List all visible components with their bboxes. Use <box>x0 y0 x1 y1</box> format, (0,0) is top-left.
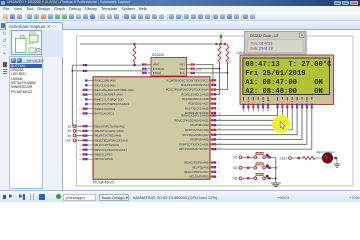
svg-text:RB3/CTED2/P2A/CCP2/AN9: RB3/CTED2/P2A/CCP2/AN9 <box>95 138 129 142</box>
svg-text:18: 18 <box>218 94 221 96</box>
svg-text:1: 1 <box>218 177 220 179</box>
svg-text:RA3/C1IN+/VREF+/AN3: RA3/C1IN+/VREF+/AN3 <box>95 93 124 97</box>
svg-text:38: 38 <box>79 150 82 152</box>
svg-text:MCLR/VPP/RE3: MCLR/VPP/RE3 <box>189 175 209 179</box>
svg-text:RA4/C1OUT/SRQ/T0CKI: RA4/C1OUT/SRQ/T0CKI <box>95 97 124 101</box>
svg-text:RE2/CCP5/P3C/AN7: RE2/CCP5/P3C/AN7 <box>184 170 209 174</box>
svg-text:Time: 08:47:13: Time: 08:47:13 <box>251 41 273 45</box>
svg-text:37: 37 <box>79 145 82 147</box>
svg-text:Fri 25/01/2019: Fri 25/01/2019 <box>245 70 305 78</box>
svg-text:LED: LED <box>66 139 71 143</box>
svg-text:B1: B1 <box>234 156 238 160</box>
svg-text:A2: 08:48:00 ON: A2: 08:48:00 ON <box>245 88 323 96</box>
svg-text:B3: B3 <box>68 134 72 138</box>
svg-text:A1: 08:47:00 ON: A1: 08:47:00 ON <box>245 79 323 87</box>
svg-text:RD5/P1B/AN25: RD5/P1B/AN25 <box>190 138 209 142</box>
svg-text:16: 16 <box>218 85 221 87</box>
svg-text:6: 6 <box>80 99 82 101</box>
svg-text:VBAT: VBAT <box>153 63 160 67</box>
svg-text:RA5/C2OUT/SRNQ/SS1/AN4: RA5/C2OUT/SRNQ/SS1/AN4 <box>95 102 130 106</box>
svg-text:2: 2 <box>80 81 82 83</box>
svg-text:RC6/TX1/CK1/AN18: RC6/TX1/CK1/AN18 <box>185 106 209 110</box>
svg-text:5.00: 5.00 <box>196 67 202 71</box>
svg-text:B2: B2 <box>234 166 238 170</box>
svg-text:RC3/SCK1/SCL1/AN15: RC3/SCK1/SCL1/AN15 <box>181 92 209 96</box>
svg-text:RA0/C12IN0-/AN0: RA0/C12IN0-/AN0 <box>95 79 117 83</box>
svg-text:RE1/P3B/AN6: RE1/P3B/AN6 <box>192 165 209 169</box>
svg-text:B2: B2 <box>68 129 72 133</box>
svg-text:RD6/P1C/TX2/CK2/AN26: RD6/P1C/TX2/CK2/AN26 <box>179 142 209 146</box>
svg-text:RD1/CCP4/SDI2/SDA2/AN21: RD1/CCP4/SDI2/SDA2/AN21 <box>174 118 209 122</box>
svg-text:RC2/CTPLS/P1A/CCP1/T5CKI/AN14: RC2/CTPLS/P1A/CCP1/T5CKI/AN14 <box>166 88 209 92</box>
svg-text:40: 40 <box>79 159 82 161</box>
svg-text:8: 8 <box>218 163 220 165</box>
svg-text:INT/SQW: INT/SQW <box>153 67 165 71</box>
svg-text:14: 14 <box>79 109 82 111</box>
svg-text:39: 39 <box>79 154 82 156</box>
svg-text:23: 23 <box>218 99 221 101</box>
svg-text:10: 10 <box>218 172 221 174</box>
svg-text:24: 24 <box>218 104 221 106</box>
svg-text:RD7/P1D/RX2/DT2/AN27: RD7/P1D/RX2/DT2/AN27 <box>179 147 209 151</box>
svg-text:13: 13 <box>79 113 82 115</box>
svg-text:RB2/INT2/CTED1/AN8: RB2/INT2/CTED1/AN8 <box>95 134 122 138</box>
svg-text:RB6/IOC2/PGC: RB6/IOC2/PGC <box>95 153 113 157</box>
svg-text:25: 25 <box>218 108 221 110</box>
svg-text:RD4/SDO2/P2D/AN24: RD4/SDO2/P2D/AN24 <box>183 133 210 137</box>
svg-text:LED: LED <box>281 156 288 160</box>
svg-text:RB7/IOC3/PGD: RB7/IOC3/PGD <box>95 157 113 161</box>
svg-text:RA2/C2IN+/DACOUT/VREF-/AN2: RA2/C2IN+/DACOUT/VREF-/AN2 <box>95 88 135 92</box>
svg-text:Date: 25-01-19: Date: 25-01-19 <box>251 46 273 50</box>
svg-text:RB1/INT1/C12IN3-/AN10: RB1/INT1/C12IN3-/AN10 <box>95 129 125 133</box>
svg-text:B3: B3 <box>234 177 238 181</box>
svg-text:32KHZ: 32KHZ <box>153 71 161 75</box>
svg-text:4: 4 <box>80 90 82 92</box>
svg-text:RD0/SCK2/SCL2/AN20: RD0/SCK2/SCL2/AN20 <box>181 114 209 118</box>
svg-text:RST: RST <box>180 63 186 67</box>
svg-text:RB0/INT0/FLT0/SRI/AN12: RB0/INT0/FLT0/SRI/AN12 <box>95 124 126 128</box>
svg-text:RC0/P2B/SOSCT1CKI/T3G/SOSCO: RC0/P2B/SOSCT1CKI/T3G/SOSCO <box>166 78 208 82</box>
svg-text:5: 5 <box>80 95 82 97</box>
svg-text:RD3/P2C/SS2/AN23: RD3/P2C/SS2/AN23 <box>185 128 209 132</box>
svg-text:RC4/SDI1/SDA1/AN16: RC4/SDI1/SDA1/AN16 <box>182 97 209 101</box>
svg-text:9: 9 <box>218 167 220 169</box>
svg-text:RA7/CLKI/OSC1: RA7/CLKI/OSC1 <box>95 112 115 116</box>
svg-text:RA6/CLKO/OSC2: RA6/CLKO/OSC2 <box>95 107 116 111</box>
svg-text:RB4/IOC0/T5G/AN11: RB4/IOC0/T5G/AN11 <box>95 143 120 147</box>
svg-text:RD2/P2B/AN22: RD2/P2B/AN22 <box>190 123 209 127</box>
svg-text:15: 15 <box>218 80 221 82</box>
svg-text:DS3232: DS3232 <box>152 53 164 57</box>
svg-text:RB5/IOC1/P3A/CCP3/AN13: RB5/IOC1/P3A/CCP3/AN13 <box>95 148 128 152</box>
svg-text:SDA: SDA <box>179 67 185 71</box>
svg-text:RC5/SDO1/AN17: RC5/SDO1/AN17 <box>188 102 209 106</box>
svg-text:B1: B1 <box>68 124 72 128</box>
svg-text:08:47:13 T: 27.00°C: 08:47:13 T: 27.00°C <box>245 60 332 69</box>
svg-text:3: 3 <box>80 85 82 87</box>
svg-text:SCL: SCL <box>180 71 186 75</box>
svg-text:RC1/P2A/CCP2/SOSCI: RC1/P2A/CCP2/SOSCI <box>181 83 209 87</box>
svg-text:RA1/C12IN1-/AN1: RA1/C12IN1-/AN1 <box>95 83 117 87</box>
svg-text:PIC18F46K22: PIC18F46K22 <box>93 181 114 185</box>
svg-text:DS3232 Clock - U2: DS3232 Clock - U2 <box>250 34 278 38</box>
svg-text:7: 7 <box>80 104 82 106</box>
svg-text:RE0/CCP3/P3A/AN5: RE0/CCP3/P3A/AN5 <box>184 161 209 165</box>
